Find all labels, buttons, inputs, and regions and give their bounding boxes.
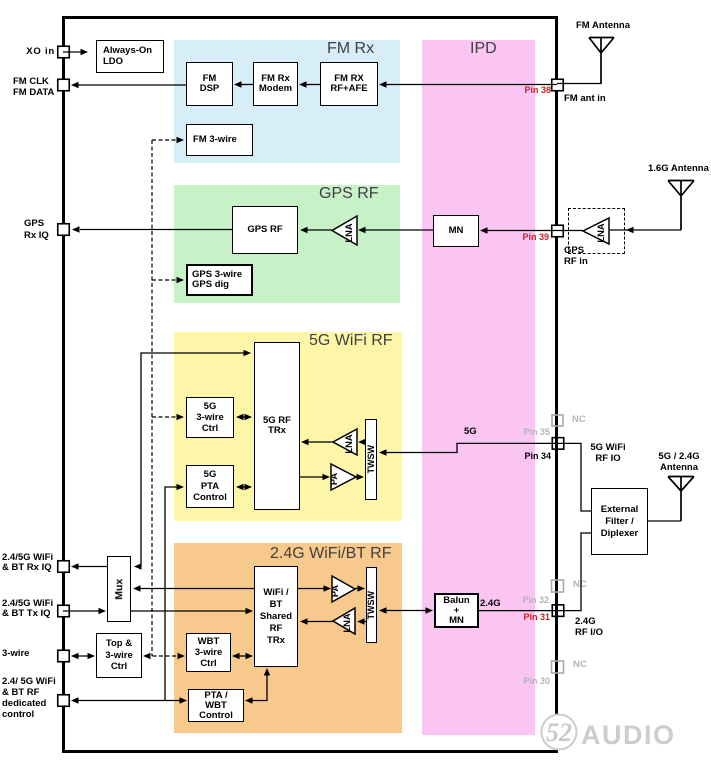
5G WiFi RF band bbox=[174, 332, 402, 521]
block GPS RF bbox=[232, 206, 298, 254]
wire dashed control bus vertical bbox=[151, 140, 153, 656]
svg-text:LNA: LNA bbox=[344, 434, 354, 453]
wire pin 39 to MN bbox=[486, 230, 557, 232]
wire 2.4G PA to TWSW bbox=[355, 588, 360, 590]
pin 34 label bbox=[496, 451, 551, 462]
wire 2.4G LNA to WiFi/BT TRx bbox=[305, 621, 333, 623]
wire 3-wire pin to Top & 3-wire Ctrl bbox=[74, 655, 92, 657]
block FM 3-wire bbox=[186, 124, 253, 156]
watermark 52audio logo bbox=[540, 713, 711, 753]
svg-text:LNA: LNA bbox=[342, 613, 352, 632]
pin 2.4/5G WiFi & BT RF dedicated control bbox=[58, 695, 70, 707]
wire TWSW to Balun + MN bbox=[381, 610, 430, 612]
GPS RF band bbox=[174, 185, 400, 303]
net label 5G bbox=[464, 427, 477, 438]
chip outline bbox=[62, 16, 558, 753]
block FM RX RF+AFE bbox=[320, 62, 378, 106]
port label 3-wire bbox=[2, 649, 29, 660]
pin 34 5G WiFi RF IO bbox=[552, 438, 564, 450]
title 5G WiFi RF bbox=[309, 332, 393, 350]
wire WBT 3-wire Ctrl to WiFi/BT TRx bbox=[235, 655, 250, 657]
block 5G 3-wire Ctrl bbox=[186, 397, 234, 438]
block PTA / WBT Control bbox=[188, 689, 244, 722]
antenna 5G/2.4G Antenna symbol bbox=[668, 477, 694, 522]
pin 31 2.4G RF I/O bbox=[552, 605, 564, 617]
net label 5G WiFi RF IO bbox=[585, 443, 631, 464]
pin 3-wire bbox=[58, 650, 70, 662]
block FM DSP bbox=[186, 62, 233, 106]
amplifier LNA (external GPS module) bbox=[583, 218, 609, 244]
block WBT 3-wire Ctrl bbox=[186, 633, 231, 672]
wire FM antenna feed bbox=[557, 83, 601, 85]
pin 2.4/5G WiFi & BT Tx IQ bbox=[58, 605, 70, 617]
pin 31 label bbox=[495, 612, 550, 623]
amplifier LNA (GPS) bbox=[332, 216, 357, 245]
wire XO in to Always-On LDO bbox=[63, 51, 81, 53]
IPD band bbox=[422, 40, 535, 735]
FM Rx band bbox=[174, 40, 400, 163]
block FM Rx Modem bbox=[253, 62, 298, 106]
amplifier PA (2.4G) bbox=[330, 576, 355, 602]
wire pin 34 to External Filter bbox=[558, 443, 591, 511]
port label XO in bbox=[0, 47, 55, 58]
block External Filter / Diplexer bbox=[591, 488, 648, 555]
wire Balun + MN to pin 31 bbox=[479, 610, 558, 612]
svg-text:PA: PA bbox=[330, 585, 340, 598]
wire TWSW to 5G LNA bbox=[361, 441, 365, 443]
svg-text:PA: PA bbox=[329, 473, 339, 486]
block 5G RF TRx bbox=[254, 342, 300, 510]
pin 2.4/5G WiFi & BT Rx IQ bbox=[58, 561, 70, 573]
pin 32 NC bbox=[552, 580, 564, 592]
wire pin 38 to FM RX RF+AFE bbox=[385, 84, 557, 86]
wire 1.6G antenna to ext LNA bbox=[610, 229, 681, 231]
amplifier LNA (5G) bbox=[333, 429, 357, 455]
wire 5G 3-wire Ctrl to 5G RF TRx bbox=[240, 416, 248, 418]
wire dedicated-control branch to 5G PTA Control bbox=[165, 487, 178, 701]
pin 35 NC label bbox=[572, 415, 586, 426]
port label FM CLK / FM DATA bbox=[13, 76, 54, 98]
antenna label 1.6G Antenna bbox=[648, 164, 709, 175]
wire WiFi/BT TRx to 2.4G PA bbox=[298, 588, 326, 590]
pin 30 NC bbox=[552, 661, 564, 673]
wire dedicated control pin to PTA/WBT Control bbox=[74, 700, 184, 702]
pin XO in bbox=[58, 46, 70, 58]
pin 30 label bbox=[495, 676, 550, 687]
title FM Rx bbox=[327, 40, 374, 58]
pin 38 label bbox=[496, 85, 551, 96]
wire Tx IQ pin to Mux bbox=[63, 610, 100, 612]
pin 39 label bbox=[494, 232, 549, 243]
net label GPS RF in bbox=[564, 246, 588, 267]
block WiFi/BT Shared RF TRx bbox=[254, 566, 298, 667]
block 5G PTA Control bbox=[186, 465, 234, 508]
block Always-On LDO bbox=[96, 40, 164, 73]
wire dashed to 5G 3-wire Ctrl bbox=[152, 416, 178, 418]
title IPD bbox=[470, 40, 497, 58]
net label 2.4G RF I/O bbox=[575, 616, 603, 638]
wire External Filter to 5G/2.4G antenna bbox=[648, 520, 681, 522]
antenna 1.6G Antenna symbol bbox=[668, 181, 694, 231]
pin 30 NC label bbox=[573, 660, 587, 671]
pin GPS Rx IQ bbox=[58, 224, 70, 236]
pin 35 label bbox=[495, 427, 550, 438]
port label 2.4/5G WiFi & BT RF dedicated control bbox=[2, 676, 56, 720]
wire FM DSP to FM CLK/FM DATA pin bbox=[78, 84, 186, 86]
pin 35 NC bbox=[552, 415, 563, 426]
wire LNA to GPS RF bbox=[306, 229, 332, 231]
wire GPS RF to GPS Rx IQ pin bbox=[80, 229, 232, 231]
wire FM Rx Modem to FM DSP bbox=[240, 84, 253, 86]
port label 2.4/5G WiFi & BT Rx IQ bbox=[2, 553, 53, 574]
antenna label FM Antenna bbox=[576, 21, 630, 32]
wire Mux to 5G RF TRx bbox=[141, 353, 245, 567]
wire PTA/WBT Control to WiFi/BT TRx bbox=[248, 671, 267, 701]
pin FM CLK / FM DATA bbox=[58, 79, 70, 91]
switch TWSW (2.4G) bbox=[366, 567, 377, 643]
port label 2.4/5G WiFi & BT Tx IQ bbox=[2, 599, 53, 620]
svg-text:LNA: LNA bbox=[344, 223, 354, 242]
block MN bbox=[433, 215, 479, 247]
block Mux bbox=[107, 556, 131, 622]
wire TWSW to 2.4G LNA bbox=[361, 621, 366, 623]
block Top & 3-wire Ctrl bbox=[96, 633, 142, 678]
wire dashed to FM 3-wire bbox=[152, 139, 178, 141]
port label GPS Rx IQ bbox=[24, 218, 49, 241]
switch TWSW (5G) bbox=[365, 419, 377, 500]
wire Mux to WiFi/BT TRx bbox=[131, 610, 248, 612]
net label 2.4G (balun out) bbox=[480, 599, 501, 610]
pin 32 label bbox=[494, 595, 549, 606]
amplifier LNA (2.4G) bbox=[333, 608, 355, 634]
wire Mux to Rx IQ pin bbox=[78, 566, 107, 568]
net label FM ant in bbox=[564, 94, 606, 105]
wire 5G PTA Control to 5G RF TRx bbox=[240, 486, 248, 488]
wire 5G LNA to 5G RF TRx bbox=[306, 441, 333, 443]
wire 5G TWSW to pin 34 bbox=[383, 443, 558, 452]
wire 5G PA to TWSW bbox=[356, 476, 359, 478]
wire pin 31 to External Filter bbox=[558, 533, 591, 611]
amplifier PA (5G) bbox=[329, 464, 356, 490]
svg-text:AUDIO: AUDIO bbox=[581, 720, 676, 750]
wire WiFi/BT TRx to Mux bbox=[138, 588, 254, 590]
2.4G WiFi/BT RF band bbox=[174, 543, 402, 733]
block GPS 3-wire GPS dig bbox=[186, 264, 253, 296]
antenna FM Antenna symbol bbox=[589, 38, 614, 85]
wire FM RX RF+AFE to FM Rx Modem bbox=[305, 84, 320, 86]
pin 38 FM ant in bbox=[552, 79, 564, 91]
title 2.4G WiFi/BT RF bbox=[270, 545, 392, 563]
title GPS RF bbox=[319, 185, 379, 203]
antenna label 5G / 2.4G Antenna bbox=[650, 452, 708, 473]
wire dashed to GPS 3-wire bbox=[152, 279, 178, 281]
wire MN to GPS LNA bbox=[362, 229, 433, 231]
wire ext LNA to pin 39 bbox=[557, 230, 583, 232]
svg-text:LNA: LNA bbox=[596, 223, 606, 242]
pin 32 NC label bbox=[573, 580, 587, 591]
external GPS LNA module (dashed) bbox=[568, 208, 625, 254]
svg-text:52: 52 bbox=[546, 718, 572, 747]
pin 39 GPS RF in bbox=[552, 225, 564, 237]
block Balun + MN bbox=[434, 593, 479, 628]
wire 5G RF TRx to 5G PA bbox=[300, 476, 325, 478]
wire dashed Top&3-wire to WBT 3-wire bbox=[146, 655, 182, 657]
